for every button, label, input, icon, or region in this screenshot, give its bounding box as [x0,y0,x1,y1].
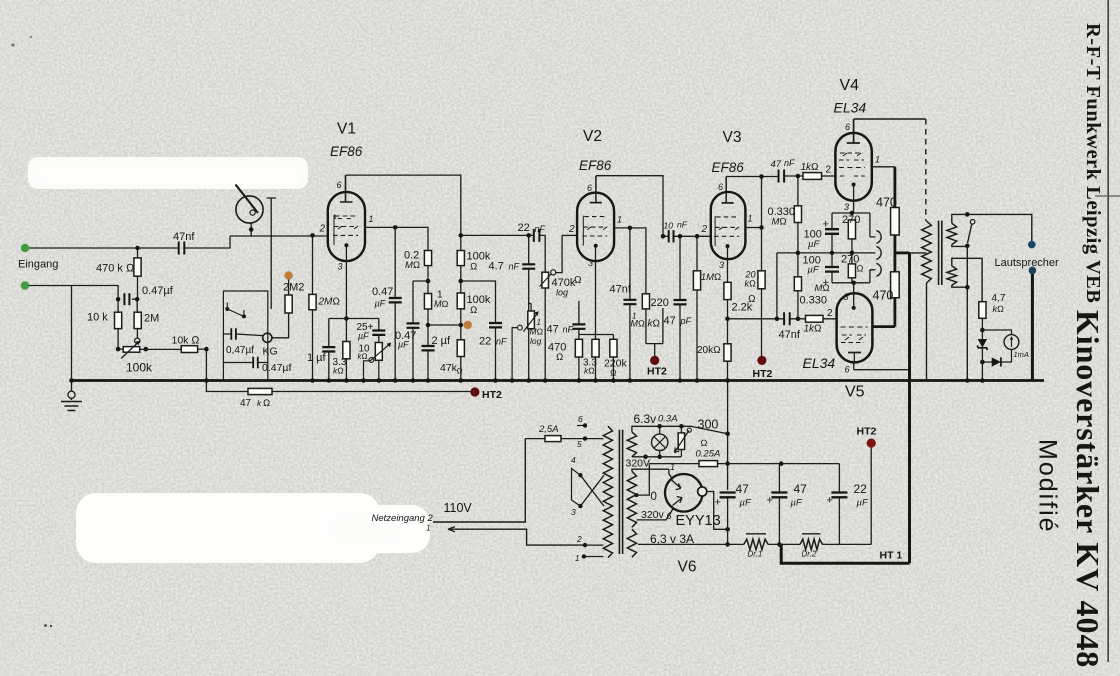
svg-text:6: 6 [578,414,583,424]
resistor 470k [137,248,139,299]
tube V1 pin 1 anode [365,227,428,250]
svg-text:220: 220 [651,297,669,309]
tube V3 pin 6 [725,177,727,203]
svg-text:Dr.2: Dr.2 [802,550,817,559]
ground bus wire [72,379,1045,382]
KG tone box [223,291,267,381]
capacitor 47 pF branch leg [662,308,664,344]
zener diode [978,339,987,350]
svg-text:Ω: Ω [701,438,708,448]
tube V4 pin 3 cathode [853,185,855,214]
capacitor 47nF coupling V4 [779,170,785,183]
potentiometer 10k cathode [375,343,382,361]
tube V5 pin 6 [854,362,910,369]
svg-text:5: 5 [577,439,582,449]
resistor 100k lower [460,266,462,340]
resistor 1 MOhm [427,266,429,346]
svg-text:EF86: EF86 [712,160,745,175]
svg-text:1: 1 [748,214,753,224]
svg-text:kΩ: kΩ [648,319,661,330]
svg-text:1: 1 [875,155,880,165]
svg-text:300: 300 [698,418,719,432]
resistor 220 kOhm [642,294,649,309]
resistor 1MOhm grid [695,234,700,239]
wire centre tap 0 [637,464,650,496]
rectifier pin 1 [669,469,673,479]
pilot lamp [652,426,668,457]
tube V2 screen rail [596,176,663,237]
capacitor 4.7 nF [528,235,530,380]
resistor 47k [457,340,464,357]
capacitor 2uf [422,346,435,350]
capacitor 100uF upper [825,229,839,234]
wire heavy HT1 [781,544,909,563]
rotary switch input selector [236,185,264,224]
voltage selector cross [578,473,582,477]
transformer terminal 2 [583,543,587,547]
svg-text:Lautsprecher: Lautsprecher [995,257,1060,269]
tube V5 envelope [837,293,873,362]
potentiometer 470k log [542,272,549,288]
svg-text:nF: nF [784,158,795,168]
choke Dr.1 [744,539,768,549]
wire heavy V5 anode [872,298,895,327]
svg-text:Ω: Ω [470,305,477,316]
svg-text:10k Ω: 10k Ω [172,335,200,347]
svg-text:0.47: 0.47 [372,286,393,298]
wire to OT primary center [910,252,927,254]
resistor 270 lower [851,253,853,283]
tube V1 pin 3 cathode [345,245,347,318]
svg-text:1: 1 [575,554,579,563]
capacitor 22 nF shunt [489,323,502,327]
resistor 0.2 MOhm [424,251,431,266]
wire heater top [632,426,728,433]
resistor 470 lower [894,235,897,272]
svg-text:log: log [556,288,568,298]
wire cathode bracket [579,301,614,339]
svg-text:470: 470 [876,196,897,210]
capacitor 22uF [838,464,840,545]
wire dashed to output transformer [925,119,927,221]
tube V4 pin 6 top cap [847,119,860,143]
svg-text:Ω: Ω [857,264,864,274]
svg-text:µF: µF [791,498,803,509]
svg-text:0.47µf: 0.47µf [142,285,174,297]
svg-text:kΩ: kΩ [745,279,757,289]
svg-text:22: 22 [479,336,491,348]
svg-text:MΩ: MΩ [772,217,787,228]
speaker impedance switch [968,220,975,244]
svg-text:HT2: HT2 [482,389,502,401]
svg-text:47k: 47k [440,362,458,374]
svg-text:µF: µF [857,498,869,509]
tube V1 internals [333,215,358,246]
svg-text:µF: µF [808,265,820,276]
mains fuse 2,5A [525,438,585,440]
svg-text:47: 47 [771,159,782,170]
capacitor 100uF lower [831,253,833,283]
tube V1 pin 6 [340,175,353,202]
svg-text:HT2: HT2 [647,366,667,378]
tube V2 pin 1 anode [614,228,646,294]
capacitor 10 nF [669,230,674,242]
tube V2 pin 6 [595,176,597,203]
fuse 0.25A [649,463,839,465]
resistor 1 kOhm grid stopper V4 [803,173,822,180]
svg-text:2MΩ: 2MΩ [318,297,341,308]
node [850,211,855,216]
wire secondary 1 leads [952,214,1032,246]
resistor 270 upper [848,220,855,239]
svg-text:V5: V5 [845,384,865,401]
svg-text:6: 6 [845,365,850,375]
svg-text:47: 47 [240,398,252,409]
tube V5 internals (inverted) [841,306,868,362]
node HT2 [470,387,479,396]
svg-text:3: 3 [719,260,724,270]
svg-text:2 µf: 2 µf [432,335,452,347]
wire 320V top tap [632,469,669,471]
svg-text:+: + [823,277,829,289]
wire to HT2 [646,309,663,357]
svg-text:EL34: EL34 [834,100,867,116]
tube V2 pin 3 cathode [595,246,597,335]
svg-text:+: + [767,495,773,507]
svg-text:Modifié: Modifié [1034,439,1062,534]
svg-text:4.7: 4.7 [489,261,504,273]
heater winding 6,3v 3A [627,529,636,557]
KG jack [263,333,272,342]
svg-text:V1: V1 [337,121,356,138]
bus junctions [229,247,231,249]
potentiometer 100k [135,338,140,343]
output transformer primary winding [922,221,932,283]
wire secondary 2 leads [952,258,982,301]
node [116,297,121,302]
svg-text:4: 4 [571,455,576,465]
power transformer core [619,430,622,554]
svg-text:4,7: 4,7 [992,293,1006,304]
svg-text:KG: KG [263,346,278,358]
rectifier V6 EYY13 [665,474,707,512]
svg-text:6: 6 [667,511,672,521]
svg-text:0.3A: 0.3A [658,414,678,425]
wire V1 screen rail [346,175,461,250]
output transformer secondary 2 [947,266,957,286]
V3 coupling rail to V4 [726,175,803,178]
tube V1 envelope [328,192,365,261]
svg-text:EF86: EF86 [330,144,363,159]
node HT2 psu [870,448,872,545]
transformer winding taps (arcs) [876,230,881,276]
resistor 2M2 [272,280,289,338]
tube V3 internals [714,203,739,248]
stray pen marks [44,624,47,627]
capacitor 1uf [328,319,330,381]
svg-text:Ω: Ω [263,398,270,409]
resistor 4,7 kOhm [979,302,986,319]
svg-text:HT 1: HT 1 [880,550,903,562]
svg-text:270: 270 [842,214,860,226]
svg-text:1: 1 [369,214,374,224]
tube V4 envelope [835,133,871,201]
tube V4 pin 1 [872,166,895,168]
heater winding 6.3v [627,432,636,457]
svg-text:0.47µf: 0.47µf [262,362,291,374]
svg-text:2: 2 [568,224,575,235]
svg-text:2M2: 2M2 [283,282,304,294]
svg-text:EF86: EF86 [579,158,612,173]
wire return rail [638,543,871,545]
power transformer primary [603,426,612,557]
svg-text:2: 2 [576,534,582,544]
resistor 20 kOhm screen V3 [761,177,763,357]
svg-text:+: + [823,219,829,231]
svg-text:470 k Ω: 470 k Ω [96,263,135,275]
svg-text:2: 2 [827,308,833,319]
resistor 1kOhm grid stopper V5 [806,315,824,322]
resistor 47 kOhm [248,388,272,394]
wire 320v bottom tap [637,509,674,520]
capacitor 0.47uF anode [394,227,396,380]
wire heater bottom [632,456,682,458]
tube V2 internals [582,203,607,248]
node HT2 [650,356,659,365]
svg-text:47: 47 [736,482,750,496]
wire cathode box top [832,213,875,237]
svg-text:6.3v: 6.3v [634,412,657,426]
ground symbol [61,381,82,411]
svg-text:47nf: 47nf [779,329,801,341]
svg-text:Ω: Ω [457,367,463,376]
resistor 220k [610,339,617,357]
svg-text:2: 2 [319,224,326,235]
svg-text:47nf: 47nf [610,284,632,296]
svg-text:6: 6 [337,180,342,190]
svg-text:6: 6 [718,182,723,192]
tube V3 pin 1 anode [745,227,761,229]
wire input top [29,236,230,248]
svg-text:22: 22 [518,222,530,234]
svg-text:kΩ: kΩ [358,352,368,361]
tube V4 internals [839,153,866,187]
wire V5 grid line [728,318,837,320]
wire input bottom [29,286,118,381]
svg-text:nF: nF [535,224,546,234]
meter 1mA [982,330,1011,335]
node orange [464,321,472,329]
wire center tap line [777,252,876,254]
svg-text:µF: µF [398,340,409,350]
wire heavy to HT1 riser [895,251,910,254]
svg-text:6: 6 [587,183,592,193]
transformer terminal 6 [583,423,587,427]
resistor 3.3k cathode [345,359,347,381]
fuse 0.3A [675,426,692,457]
svg-text:100k: 100k [126,361,153,375]
rectifier cathode lead [707,492,728,530]
svg-text:Ω: Ω [574,275,582,286]
capacitor 47 pF shunt [679,236,681,380]
wire V4 anode top [854,118,926,120]
svg-text:47: 47 [547,324,559,336]
wire heavy speaker return [1031,274,1034,381]
svg-text:2.2k: 2.2k [732,302,753,314]
diode [982,349,1011,362]
svg-text:R-F-T Funkwerk Leipzig VEB: R-F-T Funkwerk Leipzig VEB [1082,23,1104,303]
svg-text:10 k: 10 k [87,312,108,324]
svg-text:0.25A: 0.25A [696,449,721,460]
input terminal 1 [21,244,29,252]
wire screen node [461,281,496,381]
svg-text:HT2: HT2 [857,426,877,438]
svg-text:20kΩ: 20kΩ [697,345,721,356]
svg-text:22: 22 [854,482,868,496]
resistor 0.330 MOhm lower [797,253,799,319]
wire to HT2 row [198,349,248,391]
white erased blob lower-left [76,493,380,563]
svg-text:3: 3 [844,292,849,302]
capacitor 0.47uF second [413,281,428,381]
svg-text:2,5A: 2,5A [538,424,559,435]
svg-text:2: 2 [826,165,832,176]
svg-text:110V: 110V [444,501,473,515]
wire switch return [966,246,968,381]
svg-text:V2: V2 [583,128,602,145]
svg-text:0: 0 [651,491,657,503]
svg-text:nF: nF [509,262,520,272]
capacitor 0,47uf box [231,328,236,339]
svg-text:47nf: 47nf [173,231,195,243]
svg-text:47: 47 [794,482,808,496]
svg-text:kΩ: kΩ [993,304,1005,314]
svg-text:1mA: 1mA [1014,350,1029,359]
svg-text:EL34: EL34 [803,355,836,371]
svg-text:MΩ: MΩ [434,299,448,309]
svg-text:1kΩ: 1kΩ [804,324,822,335]
svg-text:1: 1 [426,523,431,533]
capacitor 47uF no2 [778,464,780,545]
svg-text:HT2: HT2 [753,368,773,380]
potentiometer 1M log [529,304,531,331]
node test point 2M2 [284,271,292,279]
svg-text:µF: µF [740,498,752,509]
wire switch to V1 grid [230,223,328,236]
svg-text:2: 2 [701,224,708,235]
svg-text:+: + [827,495,833,507]
resistor 100k upper [457,251,464,266]
svg-text:kΩ: kΩ [333,366,344,376]
capacitor 25uF [378,319,380,343]
resistor 10k [181,346,197,353]
svg-text:320v: 320v [641,509,665,521]
svg-text:nF: nF [677,220,688,230]
capacitor 47nf coupling V5 [784,312,790,325]
capacitor 47uF no1 [720,493,736,498]
wire to HT2 [272,391,475,393]
tube V3 envelope [711,192,746,259]
svg-text:pF: pF [680,316,692,326]
svg-text:470: 470 [873,289,894,303]
svg-text:Dr.1: Dr.1 [748,550,763,559]
svg-text:V6: V6 [678,559,697,576]
transformer terminal 5 [583,436,587,440]
HV winding 320V [627,471,636,527]
svg-text:1kΩ: 1kΩ [801,162,819,173]
svg-text:1MΩ: 1MΩ [701,272,722,283]
capacitor 0.47uf box lower [253,357,258,368]
svg-text:3: 3 [588,258,593,268]
svg-text:320V: 320V [626,458,651,470]
svg-text:6: 6 [845,122,850,132]
page edge line [1107,0,1109,662]
svg-text:MΩ: MΩ [405,260,420,271]
capacitor 0.47uf [124,293,129,305]
input terminal 2 [21,281,29,289]
resistor 20kOhm cathode V3 [724,344,731,361]
svg-text:Ω: Ω [556,352,563,363]
switch contacts in box [225,303,246,319]
svg-text:+: + [715,497,721,509]
svg-text:Ω: Ω [470,262,477,273]
svg-text:1: 1 [617,215,622,225]
capacitor 22 nF coupling [534,229,540,242]
node cathode V1 [344,316,349,321]
resistor 470 Ohm [575,339,582,357]
speaker terminal bottom [1029,267,1037,275]
wire coupling [461,235,545,272]
svg-text:µF: µF [358,331,369,341]
svg-text:nF: nF [496,337,507,347]
svg-text:0.330: 0.330 [800,295,828,307]
output transformer secondary 1 [947,223,957,244]
svg-text:nF: nF [563,325,574,335]
svg-text:log: log [530,336,542,346]
svg-text:MΩ: MΩ [631,319,645,329]
svg-text:0,47µf: 0,47µf [226,345,254,356]
resistor 2.2k cathode V3 [724,282,731,299]
svg-text:V3: V3 [723,129,742,146]
svg-text:3: 3 [844,202,849,212]
svg-text:Ω: Ω [610,368,617,378]
svg-text:Netzeingang 2: Netzeingang 2 [372,513,434,524]
resistor 0.330 MOhm upper [796,174,801,179]
resistor 3.3 kOhm [592,339,599,357]
resistor 470 upper [894,167,897,208]
svg-text:1 µf: 1 µf [307,352,327,364]
svg-text:kΩ: kΩ [584,366,595,376]
resistor 10 k [117,299,119,349]
wire bias feed [776,253,778,319]
wire cathode box bottom [832,270,875,308]
capacitor 47 nF cathode [572,324,585,328]
svg-text:MΩ: MΩ [530,327,544,337]
svg-text:µF: µF [808,239,820,250]
wire [663,235,711,237]
capacitor 47nf anode [629,228,631,381]
white erased patch upper-left [28,157,308,189]
svg-text:V4: V4 [840,77,860,94]
transformer core [939,221,942,285]
svg-text:Eingang: Eingang [18,259,58,271]
capacitor 47nf input [179,242,185,255]
svg-text:2M: 2M [144,313,159,325]
tube V3 pin 3 cathode [727,246,729,282]
transformer terminal 1 [582,554,586,558]
tube V2 envelope [577,193,614,262]
wire primary bottom to bus [926,283,928,381]
